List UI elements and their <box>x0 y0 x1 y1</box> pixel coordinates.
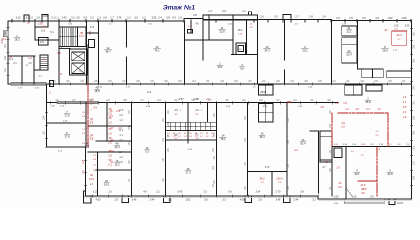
svg-text:1.2: 1.2 <box>345 107 349 111</box>
svg-text:4.70: 4.70 <box>265 167 270 169</box>
svg-text:17.8: 17.8 <box>64 114 70 118</box>
pilaster left <box>3 31 8 37</box>
svg-text:1.1: 1.1 <box>55 17 59 20</box>
svg-text:13.2: 13.2 <box>79 35 84 38</box>
svg-text:2.1: 2.1 <box>366 107 370 111</box>
svg-text:20.3: 20.3 <box>396 33 402 37</box>
svg-text:24.3: 24.3 <box>264 49 270 53</box>
svg-text:3.3: 3.3 <box>41 29 45 33</box>
svg-text:28.6: 28.6 <box>260 90 266 94</box>
bottom wall right section <box>318 198 412 200</box>
svg-text:2.0: 2.0 <box>335 101 339 105</box>
svg-text:ПУ: ПУ <box>195 135 199 137</box>
basement stair <box>40 55 48 70</box>
svg-text:1.8: 1.8 <box>58 72 62 76</box>
right wall <box>411 21 413 200</box>
svg-text:4.1: 4.1 <box>242 10 246 13</box>
svg-text:3.55: 3.55 <box>152 17 157 20</box>
wall between 17.8 rooms and strip <box>85 103 87 147</box>
svg-text:28.4: 28.4 <box>218 66 223 69</box>
svg-text:74.1: 74.1 <box>154 49 160 53</box>
svg-text:1.3: 1.3 <box>97 17 101 20</box>
left wall lower <box>85 147 87 196</box>
svg-text:3.3: 3.3 <box>338 185 342 189</box>
svg-text:2.8: 2.8 <box>103 17 107 20</box>
svg-text:3.10: 3.10 <box>16 17 21 20</box>
svg-text:1.90: 1.90 <box>394 25 399 28</box>
svg-text:23.1: 23.1 <box>302 49 308 53</box>
svg-text:17.8: 17.8 <box>64 135 70 139</box>
svg-text:2.6: 2.6 <box>109 114 113 118</box>
toilet cubicle block <box>166 121 217 123</box>
svg-text:2.05: 2.05 <box>402 17 407 20</box>
tiny bump on projection <box>249 12 252 15</box>
svg-text:ЩУ: ЩУ <box>174 135 178 137</box>
svg-text:2.6: 2.6 <box>309 16 313 19</box>
svg-text:39.4: 39.4 <box>259 135 265 139</box>
svg-text:2.05: 2.05 <box>405 25 410 28</box>
svg-text:2.44: 2.44 <box>150 199 155 202</box>
svg-text:22.8: 22.8 <box>219 30 225 34</box>
svg-text:4.60: 4.60 <box>96 199 101 202</box>
porch bump 3 <box>283 15 291 20</box>
svg-text:1.2: 1.2 <box>28 56 32 60</box>
svg-text:1.9: 1.9 <box>116 109 120 113</box>
right section small rooms <box>342 26 357 36</box>
svg-text:2.75: 2.75 <box>117 17 122 20</box>
svg-text:0.8: 0.8 <box>24 17 28 20</box>
svg-text:3.46: 3.46 <box>132 199 137 202</box>
dimension text corridor bottom <box>49 101 51 104</box>
svg-text:1.50: 1.50 <box>43 15 48 18</box>
svg-text:1.90: 1.90 <box>388 17 393 20</box>
svg-text:5.9: 5.9 <box>85 145 89 149</box>
svg-text:2.1: 2.1 <box>127 17 131 20</box>
svg-text:2.2: 2.2 <box>108 122 112 125</box>
svg-text:2.2: 2.2 <box>71 17 75 20</box>
notch bottom left <box>84 191 92 203</box>
svg-text:2.44: 2.44 <box>294 199 299 202</box>
svg-text:2.64: 2.64 <box>256 191 261 194</box>
svg-text:0.9: 0.9 <box>166 17 170 20</box>
svg-text:2.4: 2.4 <box>322 16 326 19</box>
svg-text:2.62: 2.62 <box>186 199 191 202</box>
svg-text:4.5: 4.5 <box>324 160 328 164</box>
elevator shafts <box>70 49 87 75</box>
svg-text:3.9: 3.9 <box>195 109 199 112</box>
svg-text:2.2: 2.2 <box>57 51 61 55</box>
svg-text:2.3: 2.3 <box>90 17 94 20</box>
stair treads <box>60 27 62 46</box>
svg-text:0.9: 0.9 <box>83 17 87 20</box>
svg-text:2.6: 2.6 <box>260 16 264 19</box>
porch bump 2 <box>42 15 48 22</box>
svg-text:1.9: 1.9 <box>36 17 40 20</box>
svg-text:25.8: 25.8 <box>365 100 371 104</box>
entry stair strip bottom right <box>344 199 384 204</box>
small box symbol left room <box>188 30 193 34</box>
svg-text:12.4: 12.4 <box>114 145 120 149</box>
svg-text:1.8: 1.8 <box>320 105 324 109</box>
svg-text:15.9: 15.9 <box>89 178 94 181</box>
svg-text:21.5: 21.5 <box>361 187 367 191</box>
svg-text:3.10: 3.10 <box>93 191 98 194</box>
corridor top wall <box>47 83 412 85</box>
svg-text:2.9: 2.9 <box>274 16 278 19</box>
svg-text:2.3: 2.3 <box>90 25 94 29</box>
dimension ticks bottom <box>91 195 93 198</box>
svg-text:22.8: 22.8 <box>387 172 393 176</box>
svg-text:1.8: 1.8 <box>355 107 359 111</box>
svg-text:2.4: 2.4 <box>90 102 94 106</box>
svg-text:4.57: 4.57 <box>178 97 184 101</box>
porch bump 1 <box>24 15 29 21</box>
red room top right <box>392 31 407 45</box>
svg-text:3.0: 3.0 <box>76 17 80 20</box>
svg-text:Б: Б <box>10 55 12 59</box>
svg-text:78.1: 78.1 <box>220 137 226 141</box>
step wall y147 <box>47 146 86 148</box>
svg-text:48.7: 48.7 <box>105 50 111 54</box>
svg-text:2.5: 2.5 <box>349 17 353 20</box>
svg-text:4.4: 4.4 <box>147 90 151 94</box>
svg-text:2.6: 2.6 <box>40 40 44 44</box>
svg-text:4.60: 4.60 <box>240 199 245 202</box>
svg-text:9.6: 9.6 <box>240 67 244 71</box>
svg-text:2.4: 2.4 <box>110 149 114 153</box>
svg-text:2.40: 2.40 <box>62 17 67 20</box>
stairwell <box>58 21 60 84</box>
svg-text:1.6: 1.6 <box>377 107 381 111</box>
svg-text:18.3: 18.3 <box>14 38 20 42</box>
svg-text:3.00: 3.00 <box>352 196 357 199</box>
scan shadow below bottom walls <box>86 197 317 199</box>
svg-text:1.7: 1.7 <box>110 17 114 20</box>
svg-text:4.5: 4.5 <box>174 109 178 112</box>
svg-text:17.3: 17.3 <box>185 171 191 175</box>
interior walls top band <box>34 21 36 40</box>
vestibule wall <box>47 21 49 27</box>
svg-text:12.1: 12.1 <box>346 30 352 34</box>
svg-text:2.9: 2.9 <box>222 10 226 13</box>
svg-text:2.2: 2.2 <box>294 148 298 152</box>
svg-text:2.2: 2.2 <box>118 126 122 130</box>
svg-text:2.7: 2.7 <box>295 16 299 19</box>
red tick corridor <box>288 101 292 103</box>
left wall middle <box>46 84 48 147</box>
svg-text:3.8: 3.8 <box>193 14 197 17</box>
svg-text:4.0: 4.0 <box>172 17 176 20</box>
corridor bottom wall <box>47 102 339 104</box>
svg-text:21.5: 21.5 <box>361 184 366 187</box>
left wall upper <box>7 21 9 84</box>
svg-text:39.2: 39.2 <box>259 177 265 181</box>
svg-text:Этаж №1: Этаж №1 <box>163 5 196 12</box>
svg-text:4.6: 4.6 <box>375 17 379 20</box>
svg-text:1.6: 1.6 <box>108 133 112 136</box>
svg-text:1.6: 1.6 <box>343 101 347 105</box>
svg-text:26.6: 26.6 <box>382 49 388 53</box>
svg-text:1.8: 1.8 <box>108 155 112 158</box>
rooms bottom band <box>47 122 86 124</box>
red boundary dashed lines <box>87 84 89 147</box>
dimension ticks right <box>410 27 413 29</box>
svg-text:2.1: 2.1 <box>42 25 46 29</box>
right bottom section <box>332 146 412 148</box>
column footings bottom <box>122 196 129 203</box>
svg-text:13.4: 13.4 <box>119 151 124 154</box>
thick corridor wall segment <box>57 101 98 103</box>
svg-text:2.1: 2.1 <box>51 17 55 20</box>
thick wall wing bottom <box>11 82 46 85</box>
svg-text:1.6: 1.6 <box>178 17 182 20</box>
svg-text:82.4: 82.4 <box>300 142 306 146</box>
svg-text:6.3: 6.3 <box>145 150 149 154</box>
svg-text:1.4: 1.4 <box>376 147 380 151</box>
svg-text:4.4: 4.4 <box>2 37 6 41</box>
bottom wall center <box>86 195 319 197</box>
svg-text:2.4: 2.4 <box>158 17 162 20</box>
svg-text:0.9: 0.9 <box>93 106 97 110</box>
svg-text:5.45: 5.45 <box>178 191 183 194</box>
svg-text:18.8: 18.8 <box>94 89 100 93</box>
svg-text:10.67: 10.67 <box>397 202 404 205</box>
outer walls <box>8 20 184 22</box>
dimension ticks corridor <box>49 83 51 86</box>
svg-text:3.46: 3.46 <box>276 199 281 202</box>
svg-text:1.60: 1.60 <box>334 196 339 199</box>
dimension ticks left <box>7 26 10 28</box>
svg-text:18.3: 18.3 <box>238 29 243 32</box>
svg-text:1.2: 1.2 <box>142 17 146 20</box>
dimension ticks top <box>11 19 13 22</box>
svg-text:1.2: 1.2 <box>29 17 33 20</box>
svg-text:3.6: 3.6 <box>134 17 138 20</box>
svg-text:20.1: 20.1 <box>354 172 360 176</box>
small boxes left of right section <box>334 148 342 158</box>
svg-text:2.6: 2.6 <box>362 17 366 20</box>
svg-text:2.70: 2.70 <box>276 191 281 194</box>
svg-text:2.6: 2.6 <box>336 17 340 20</box>
svg-text:16.5: 16.5 <box>104 183 110 187</box>
svg-text:22.4: 22.4 <box>346 53 352 57</box>
svg-text:100.4: 100.4 <box>276 177 283 181</box>
svg-text:1.3: 1.3 <box>208 10 212 13</box>
